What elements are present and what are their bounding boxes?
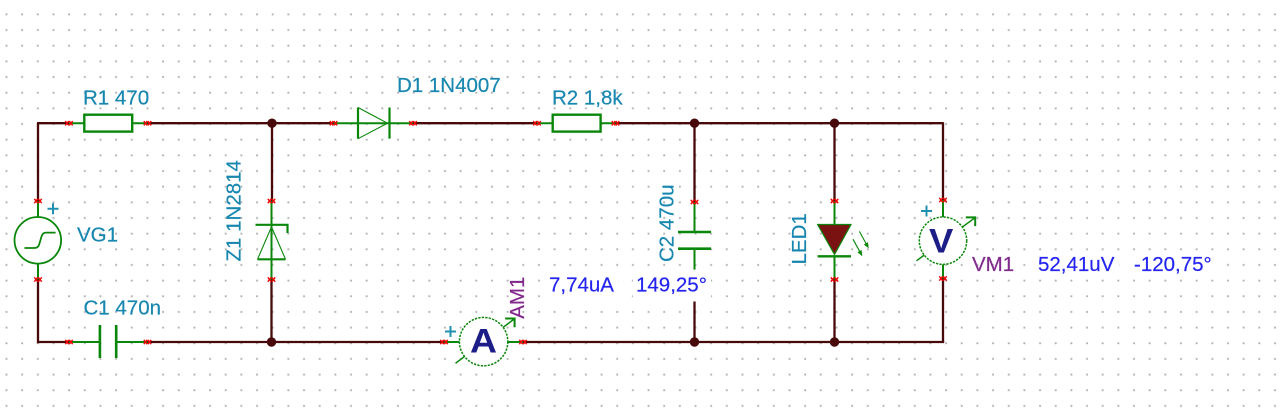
wire Z1 bottom pin to node D [270,280,272,343]
VM1 pin markers [939,198,946,281]
wire node B down to C2 top pin [693,123,695,202]
junction node B [690,119,699,128]
measurement value 149,25° [633,274,711,302]
AM1 pin markers [440,340,526,344]
voltage generator VG1 [15,201,62,280]
svg-text:VM1: VM1 [972,253,1014,276]
svg-text:C2 470u: C2 470u [656,184,679,262]
wire node A to D1 anode pin [272,122,334,124]
resistor R1 pin markers [65,121,151,125]
wire top rail left corner to R1 left pin [37,122,69,124]
svg-text:A: A [470,323,497,361]
capacitor C1 [69,325,148,358]
wire top-left vertical (VG1 top to top rail) [37,123,39,201]
wire bottom rail right corner to node F [835,341,945,343]
AM1 plus polarity mark [445,326,456,337]
ammeter AM1 [444,317,523,365]
svg-text:V: V [929,222,954,260]
diode D1 [334,108,414,139]
junction node C [830,119,839,128]
svg-text:R1 470: R1 470 [83,86,149,109]
measurement value 7,74uA [546,274,618,302]
wire node C down to LED1 top pin [833,123,835,201]
svg-text:R2 1,8k: R2 1,8k [552,86,623,109]
zener diode Z1 [256,201,288,280]
wire D1 cathode pin to R2 left pin [413,122,537,124]
wire node C to top-right corner [835,122,944,124]
wire R1 right pin to node A [148,122,273,124]
voltmeter VM1 [917,200,976,279]
svg-text:AM1: AM1 [506,277,529,319]
svg-text:C1 470n: C1 470n [84,297,162,320]
wire top-right corner down to VM1 top pin [942,122,944,200]
wire C1 left pin to bottom-left corner [37,341,69,343]
LED1 pin markers [831,199,838,282]
zener Z1 pin markers [268,199,275,282]
diode D1 pin markers [330,121,417,125]
svg-text:LED1: LED1 [788,213,811,264]
wire node E to AM1 right pin [523,341,695,343]
measurement value 52,41uV [1035,253,1119,276]
VM1 plus polarity mark [921,206,932,217]
junction node F [830,337,839,346]
wire node A down to Z1 top pin [271,123,273,201]
junction node E [690,337,699,346]
wire AM1 left pin to node D [272,341,445,343]
junction node A [267,119,276,128]
wire C2 bottom pin to node E [693,281,695,343]
resistor R2 [537,115,616,132]
resistor R1 [69,115,148,132]
svg-text:-120,75°: -120,75° [1134,253,1212,276]
wire node D to C1 right pin [148,341,272,343]
measurement value -120,75° [1131,253,1219,276]
svg-text:D1 1N4007: D1 1N4007 [397,74,501,97]
junction node D [267,337,276,346]
svg-text:Z1 1N2814: Z1 1N2814 [223,160,246,261]
LED LED1 [818,201,869,280]
VG1 pin markers [34,199,41,282]
wire node B to node C [695,122,835,124]
svg-text:VG1: VG1 [77,224,118,247]
wire node F to node E [695,341,835,343]
capacitor C2 [678,202,711,270]
svg-text:7,74uA: 7,74uA [549,274,614,297]
VG1 plus polarity mark [48,203,59,214]
wire bottom-left corner up to VG1 bottom pin [37,280,39,344]
wire R2 right pin to node B [616,122,695,124]
svg-text:149,25°: 149,25° [636,274,707,297]
wire VM1 bottom pin to bottom-right corner [942,279,944,343]
capacitor C1 pin markers [65,340,151,344]
capacitor C2 pin marker top [691,200,698,204]
resistor R2 pin markers [533,121,619,125]
svg-text:52,41uV: 52,41uV [1038,253,1115,276]
wire LED1 bottom pin to node F [833,280,835,343]
